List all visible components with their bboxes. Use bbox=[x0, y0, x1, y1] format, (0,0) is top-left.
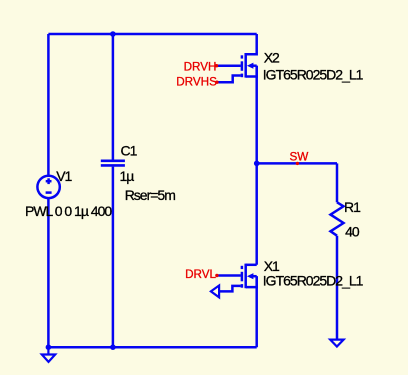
wire SW horizontal bbox=[257, 162, 337, 165]
X2 gate bar segments bbox=[241, 55, 244, 58]
mosfet X2 bbox=[242, 34, 257, 78]
svg-text:X2: X2 bbox=[264, 50, 280, 66]
svg-text:IGT65R025D2_L1: IGT65R025D2_L1 bbox=[263, 66, 364, 82]
X1 source horizontal bbox=[246, 276, 257, 287]
wire left vertical upper bbox=[47, 34, 50, 176]
svg-text:SW: SW bbox=[290, 151, 309, 164]
ground left-rotated at X1 sense bbox=[211, 286, 219, 298]
wire C1 top lead bbox=[112, 34, 115, 160]
wire DRVHS jog to X2 bbox=[218, 76, 241, 83]
svg-text:V1: V1 bbox=[56, 168, 72, 184]
wire bottom rail bbox=[48, 346, 256, 349]
wire X2 source to SW node bbox=[255, 66, 258, 164]
svg-text:C1: C1 bbox=[121, 143, 138, 159]
wire X1 drain from SW bbox=[255, 163, 258, 264]
wire DRVL to X1 gate bbox=[218, 274, 241, 277]
wire C1 bottom lead bbox=[112, 167, 115, 348]
node DRVL anchor bbox=[215, 274, 218, 277]
node top C1 junction bbox=[110, 31, 116, 37]
wire DRVH to X2 gate bbox=[218, 64, 241, 67]
wire R1 top lead bbox=[336, 163, 339, 202]
X2 source arrow bbox=[253, 64, 257, 67]
svg-text:R1: R1 bbox=[344, 199, 361, 215]
ground below R1 bbox=[330, 340, 343, 347]
wire R1 bottom lead bbox=[336, 236, 339, 340]
X2 source horizontal bbox=[246, 66, 257, 77]
voltage source V1 bbox=[37, 176, 59, 198]
node SW junction bbox=[254, 161, 260, 167]
X1 drain lead bbox=[246, 264, 257, 267]
svg-text:DRVL: DRVL bbox=[185, 268, 216, 281]
svg-text:PWL 0 0 1µ 400: PWL 0 0 1µ 400 bbox=[25, 203, 112, 219]
resistor R1 bbox=[331, 202, 344, 235]
X2 drain lead bbox=[246, 34, 257, 54]
svg-text:1µ: 1µ bbox=[120, 168, 135, 184]
X1 channel bar bbox=[244, 264, 247, 289]
X1 gate bar segments bbox=[241, 266, 244, 269]
svg-text:40: 40 bbox=[345, 224, 360, 240]
svg-text:Rser=5m: Rser=5m bbox=[125, 187, 176, 203]
svg-text:DRVH: DRVH bbox=[184, 60, 217, 73]
mosfet X1 bbox=[242, 264, 257, 289]
svg-text:IGT65R025D2_L1: IGT65R025D2_L1 bbox=[263, 272, 364, 288]
X1 source arrow bbox=[253, 275, 257, 278]
node DRVHS anchor bbox=[215, 81, 218, 84]
node DRVH anchor bbox=[215, 64, 218, 67]
node bottom left junction bbox=[46, 344, 52, 350]
wire X1 sense jog to left ground bbox=[219, 286, 241, 292]
capacitor C1 bbox=[101, 161, 125, 166]
wire top rail bbox=[48, 33, 256, 36]
red flag anchor dots bbox=[215, 64, 299, 277]
svg-text:DRVHS: DRVHS bbox=[176, 76, 217, 89]
node SW anchor bbox=[296, 162, 299, 165]
wire X1 source to bottom rail bbox=[255, 276, 258, 347]
wire left vertical lower bbox=[47, 198, 50, 347]
ground below V1 bbox=[42, 347, 55, 362]
X2 channel bar bbox=[244, 53, 247, 78]
node bottom C1 junction bbox=[110, 344, 116, 350]
